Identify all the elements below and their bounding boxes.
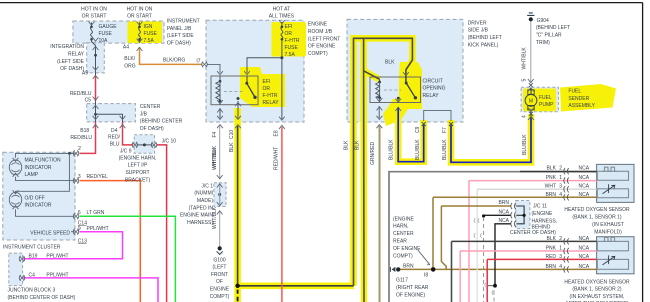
svg-text:COMPT): COMPT) — [393, 253, 413, 259]
svg-text:BLK: BLK — [547, 166, 557, 172]
svg-text:JUNCTION BLOCK 3: JUNCTION BLOCK 3 — [8, 288, 56, 294]
wire BLU/BLK from C.O.R. to C9 — [397, 100, 399, 103]
svg-text:3: 3 — [78, 174, 81, 180]
svg-text:A9: A9 — [82, 71, 88, 77]
pin sensor2 BLK — [564, 238, 569, 244]
J/C 9 box — [134, 135, 154, 154]
svg-text:D4: D4 — [111, 128, 118, 134]
svg-text:C10: C10 — [229, 130, 235, 139]
svg-text:OF DASH): OF DASH) — [167, 41, 191, 47]
pin J/C11 BRN — [511, 203, 516, 209]
svg-text:CIRCUIT: CIRCUIT — [423, 78, 443, 84]
wire RED/BLU B18 to cluster pin 2 — [80, 122, 96, 153]
svg-text:OF ENGINE: OF ENGINE — [308, 44, 336, 50]
svg-text:O/D OFF: O/D OFF — [25, 195, 45, 201]
svg-text:(ENGINE: (ENGINE — [393, 216, 415, 222]
svg-text:RELAY: RELAY — [263, 100, 280, 106]
svg-text:WHT/BLK: WHT/BLK — [212, 147, 218, 170]
svg-text:BLK: BLK — [354, 140, 360, 150]
svg-text:BLU/BLK: BLU/BLK — [389, 139, 395, 160]
pin E8 — [279, 117, 285, 129]
pin F7 — [449, 122, 453, 126]
svg-text:(BANK 1, SENSOR 1): (BANK 1, SENSOR 1) — [572, 215, 622, 221]
EFI relay coil — [219, 76, 221, 81]
svg-text:BLU: BLU — [110, 141, 120, 147]
svg-text:BLU/BLK: BLU/BLK — [522, 134, 528, 155]
svg-text:G100: G100 — [213, 257, 225, 263]
svg-text:C9: C9 — [415, 126, 421, 133]
svg-text:B18: B18 — [80, 128, 89, 134]
svg-text:CENTER OF DASH): CENTER OF DASH) — [510, 230, 556, 236]
wire center J/B internal — [95, 101, 97, 122]
svg-text:I7: I7 — [196, 58, 200, 64]
C.O.R. dashed link — [384, 89, 401, 91]
wire IGN fuse feed — [139, 23, 141, 27]
sensor2 row PNK 1 — [460, 250, 596, 252]
node BLK junction — [235, 284, 239, 288]
svg-text:ENGINE: ENGINE — [308, 22, 328, 28]
svg-text:4: 4 — [559, 192, 562, 198]
svg-text:GRN/RED: GRN/RED — [370, 142, 376, 165]
svg-text:NCA: NCA — [498, 210, 509, 216]
pin fuel pump 4 — [528, 108, 534, 120]
engine harness gray box — [389, 172, 597, 302]
svg-text:ASSEMBLY: ASSEMBLY — [568, 103, 595, 109]
svg-text:G904: G904 — [537, 18, 549, 24]
pin sensor2 RED — [564, 256, 569, 262]
svg-text:HARNESS): HARNESS) — [187, 220, 213, 226]
svg-text:VEHICLE SPEED: VEHICLE SPEED — [30, 231, 70, 237]
wire PPL/WHT pin 9 to B19 — [23, 232, 122, 259]
pin J/C 9 right — [151, 142, 157, 148]
O/D OFF indicator bulb — [9, 192, 21, 207]
svg-text:INDICATOR: INDICATOR — [25, 165, 52, 171]
pin J/C 9 left — [132, 142, 138, 148]
wire RED/YEL pin 3 down — [80, 181, 141, 302]
pin B19 — [19, 256, 25, 262]
wire BLK C10 down to junction — [238, 126, 354, 286]
svg-text:BRN: BRN — [545, 192, 556, 198]
wire RED/BLU A9 to C5 — [95, 76, 97, 101]
svg-text:NCA: NCA — [579, 192, 590, 198]
svg-text:F-HTR: F-HTR — [285, 38, 300, 44]
svg-text:GAUGE: GAUGE — [99, 24, 118, 30]
wire driver J/B internal jumper C9-F7 — [424, 110, 451, 121]
malfunction indicator lamp bulb — [9, 160, 21, 175]
svg-text:EFI: EFI — [263, 79, 271, 85]
svg-text:OR START: OR START — [127, 13, 152, 19]
pin integration relay top — [93, 38, 99, 50]
svg-text:E8: E8 — [273, 130, 279, 136]
svg-text:4: 4 — [559, 264, 562, 270]
svg-text:FUEL: FUEL — [568, 88, 581, 94]
node integration relay internal — [94, 54, 97, 57]
pin EFI relay switch bottom — [235, 103, 241, 107]
wire LT GRN pin 6 down — [80, 216, 176, 302]
svg-text:J/C 1: J/C 1 — [201, 183, 213, 189]
pin cluster 2 — [73, 150, 79, 156]
J/C 11 box — [516, 201, 530, 229]
svg-text:BLU/BLK: BLU/BLK — [415, 139, 421, 160]
frame top border — [0, 2, 643, 4]
svg-text:BLK: BLK — [343, 140, 349, 150]
svg-text:NCA: NCA — [579, 175, 590, 181]
wire BLK 2 branch to coil and down — [363, 38, 365, 302]
heated oxygen sensor 2 box — [597, 237, 634, 274]
svg-text:ENGINE: ENGINE — [210, 287, 230, 293]
wire BLK C10 from EFI relay — [237, 101, 239, 118]
wire RED/BLU D4 to J/C 9 — [123, 122, 134, 145]
svg-text:J/C 10: J/C 10 — [162, 138, 177, 144]
svg-text:WHT/BLK: WHT/BLK — [212, 206, 218, 229]
svg-text:NCA: NCA — [579, 184, 590, 190]
wire BLU/BLK F7 to fuel pump — [451, 117, 531, 163]
svg-text:RELAY: RELAY — [68, 52, 85, 58]
svg-text:10A: 10A — [99, 38, 109, 44]
sensor2 row BLK 2 — [452, 240, 597, 242]
wire PPL/WHT C4 down — [23, 278, 158, 302]
svg-text:(BANK 1, SENSOR 2): (BANK 1, SENSOR 2) — [572, 287, 622, 293]
wire vehicle speed stub to pin 9 — [71, 231, 75, 233]
wire MIL bulb to pin 3 — [16, 177, 75, 181]
svg-text:BRN: BRN — [403, 263, 414, 269]
wire J/C 9 internal — [137, 144, 153, 146]
yellow highlight band BLK wire 1 (driver J/B loop) — [354, 38, 413, 285]
wire BLK 1 loop in driver J/B — [354, 38, 413, 285]
svg-text:HEATED OXYGEN SENSOR: HEATED OXYGEN SENSOR — [564, 207, 630, 213]
svg-text:BRN: BRN — [498, 200, 509, 206]
IGN fuse 7.5A — [139, 27, 141, 40]
wire BLK/ORG A4 to I7 — [140, 47, 202, 64]
svg-text:1: 1 — [559, 246, 562, 252]
svg-text:(BEHIND LEFT: (BEHIND LEFT — [536, 25, 570, 31]
wire O/D bulb to pin 6 — [16, 209, 75, 216]
svg-text:OPENING: OPENING — [423, 86, 446, 92]
sensor1 row BRN 4 — [433, 196, 597, 198]
svg-text:INSTRUMENT: INSTRUMENT — [167, 19, 200, 25]
svg-text:(LEFT SIDE: (LEFT SIDE — [167, 33, 195, 39]
sensor2 row RED 3 — [487, 258, 596, 260]
svg-text:HARN,: HARN, — [393, 224, 409, 230]
yellow highlight band BLK wire 2 (to C.O.R. coil) — [360, 40, 367, 302]
svg-text:FRONT: FRONT — [211, 272, 228, 278]
svg-text:PNK: PNK — [546, 246, 557, 252]
svg-text:OR START: OR START — [82, 13, 107, 19]
wire PNK sensor1 down — [468, 181, 470, 302]
svg-text:COMPT): COMPT) — [308, 51, 328, 57]
svg-text:2: 2 — [559, 236, 562, 242]
J/C 11 row NCA 1 — [484, 214, 511, 216]
wire EFI relay coil output F4 — [219, 101, 221, 118]
instrument panel J/B box — [73, 21, 164, 43]
svg-text:HARNESS,: HARNESS, — [532, 219, 558, 225]
svg-text:ROOM J/B: ROOM J/B — [308, 29, 333, 35]
svg-text:ORG: ORG — [124, 63, 136, 69]
node BRN junction I8 — [431, 267, 436, 272]
pin IGN fuse top — [137, 22, 143, 26]
frame right border — [642, 3, 644, 302]
svg-text:7.5A: 7.5A — [285, 52, 296, 58]
driver side J/B box — [347, 19, 463, 122]
pin sensor1 PNK — [564, 178, 569, 184]
svg-text:BLK/: BLK/ — [124, 56, 135, 62]
svg-text:PPL/WHT: PPL/WHT — [46, 273, 68, 279]
yellow highlight circuit opening relay switch — [383, 62, 422, 126]
wire EFI fuse feed from fuse junction — [247, 58, 282, 73]
svg-text:BRN: BRN — [545, 264, 556, 270]
pin sensor1 BLK — [564, 168, 569, 174]
svg-text:(BEHIND CENTER: (BEHIND CENTER — [140, 119, 183, 125]
svg-text:(BEHIND CENTER OF DASH): (BEHIND CENTER OF DASH) — [8, 295, 76, 301]
svg-text:2: 2 — [78, 146, 81, 152]
svg-text:7.5A: 7.5A — [144, 38, 155, 44]
C.O.R. coil — [379, 79, 381, 82]
svg-text:MADE): MADE) — [197, 198, 213, 204]
svg-text:NCA: NCA — [579, 236, 590, 242]
svg-text:OR: OR — [285, 31, 293, 37]
svg-text:COMPT): COMPT) — [210, 294, 230, 300]
svg-text:PUMP: PUMP — [539, 102, 554, 108]
wire EFI fuse to E8 — [281, 39, 283, 119]
svg-text:A4: A4 — [123, 44, 129, 50]
svg-text:RED/BLU: RED/BLU — [70, 135, 92, 141]
yellow highlight fuel pump — [523, 89, 556, 112]
svg-text:SENDER: SENDER — [568, 96, 589, 102]
svg-text:4: 4 — [522, 115, 528, 118]
wire WHT sensor1 down — [476, 189, 478, 302]
circuit opening relay rect — [370, 77, 421, 103]
leader line to junction — [418, 250, 430, 265]
yellow highlight band BLK wire from EFI relay C10 — [238, 108, 354, 286]
pin cluster 9 — [73, 229, 79, 235]
yellow highlight band BLU/BLK F7-to-pump — [451, 114, 531, 162]
heated oxygen sensor 1 box — [597, 164, 634, 202]
svg-text:J/B: J/B — [140, 111, 148, 117]
connector marks WHT line — [474, 218, 479, 222]
svg-text:B19: B19 — [29, 254, 38, 260]
pin J/C 1 top — [217, 175, 223, 187]
svg-text:RED: RED — [545, 254, 556, 260]
J/C 11 internal — [517, 206, 525, 224]
svg-text:TRIM): TRIM) — [536, 40, 550, 46]
svg-text:HOT AT: HOT AT — [273, 7, 291, 13]
pin cluster 6 — [73, 213, 79, 219]
svg-text:(IN EXHAUST SYSTEM,: (IN EXHAUST SYSTEM, — [570, 294, 625, 300]
svg-text:(LEFT SIDE: (LEFT SIDE — [57, 59, 85, 65]
pin sensor2 BRN — [564, 266, 569, 272]
pin sensor2 PNK — [564, 248, 569, 254]
svg-text:KICK PANEL): KICK PANEL) — [468, 43, 499, 49]
svg-text:HEATED OXYGEN SENSOR: HEATED OXYGEN SENSOR — [564, 279, 630, 285]
svg-text:J/C 9: J/C 9 — [120, 148, 132, 154]
svg-text:SUPPORT: SUPPORT — [125, 170, 149, 176]
svg-text:PANEL J/B: PANEL J/B — [167, 26, 192, 32]
svg-text:OF: OF — [216, 279, 223, 285]
pin C.O.R. switch output — [395, 99, 401, 111]
svg-text:ALL TIMES: ALL TIMES — [269, 14, 295, 20]
svg-text:OF ENGINE: OF ENGINE — [393, 246, 421, 252]
svg-text:CENTER: CENTER — [393, 231, 414, 237]
EFI relay switch — [246, 76, 248, 83]
pin F4 — [217, 116, 223, 128]
wire PNK sensor2 down — [459, 251, 461, 302]
svg-text:LT GRN: LT GRN — [87, 210, 105, 216]
svg-text:C4: C4 — [29, 273, 36, 279]
svg-text:(NUMMI: (NUMMI — [194, 191, 213, 197]
J/C 11 row BRN — [441, 205, 511, 207]
pin A9 — [93, 67, 99, 79]
svg-text:ENGINE MAIN: ENGINE MAIN — [180, 213, 213, 219]
sensor1 row WHT 3 — [477, 188, 596, 190]
cluster internal node wire pin2 — [16, 153, 75, 157]
pin C9 — [422, 122, 426, 126]
svg-text:3: 3 — [559, 184, 562, 190]
svg-text:DRIVER: DRIVER — [468, 20, 487, 26]
pin sensor1 BRN — [564, 194, 569, 200]
yellow highlight IGN fuse — [128, 22, 163, 44]
sensor2 internal sensing element — [597, 259, 628, 269]
pin EFI relay coil top — [217, 71, 223, 75]
svg-text:9: 9 — [78, 226, 81, 232]
ground G100 — [218, 246, 222, 250]
EFI relay dashed link — [224, 91, 243, 93]
svg-text:(BEHIND LEFT: (BEHIND LEFT — [468, 35, 502, 41]
EFI relay rect — [211, 76, 258, 105]
svg-text:J/C 11: J/C 11 — [533, 204, 547, 210]
svg-text:OF DASH): OF DASH) — [60, 66, 84, 72]
wire BLK dashed continuation — [237, 290, 239, 302]
svg-text:NCA: NCA — [579, 264, 590, 270]
sensor1 row BLK 2 — [520, 171, 597, 173]
pin C.O.R. switch feed — [403, 72, 409, 76]
svg-text:RED/: RED/ — [108, 135, 121, 141]
pin fuel pump 5 — [528, 79, 534, 91]
yellow highlight EFI relay switch and label — [240, 67, 285, 107]
ground G904 — [529, 17, 533, 21]
yellow highlight band BLK dashed continuation — [234, 289, 241, 302]
sensor1 row PNK 1 — [469, 180, 597, 182]
svg-text:NCA: NCA — [579, 166, 590, 172]
wire BRN sensor1 row4 branch — [432, 197, 434, 267]
sensor1 internal sensing element — [597, 189, 628, 198]
pin C5 — [93, 97, 99, 109]
svg-text:BRACKET): BRACKET) — [125, 177, 151, 183]
svg-text:REAR: REAR — [393, 239, 407, 245]
svg-text:"C" PILLAR: "C" PILLAR — [536, 33, 562, 39]
svg-text:NCA: NCA — [498, 218, 509, 224]
svg-text:OF ENGINE): OF ENGINE) — [396, 292, 426, 298]
yellow highlight band BLU/BLK relay-to-C9 — [398, 104, 424, 162]
svg-text:BLK: BLK — [385, 59, 395, 65]
svg-text:(RIGHT REAR: (RIGHT REAR — [396, 285, 429, 291]
svg-text:3: 3 — [559, 254, 562, 260]
svg-text:WHT: WHT — [545, 184, 556, 190]
svg-text:RED/WHT: RED/WHT — [273, 147, 279, 170]
wire GRN/RED from C.O.R. coil down — [378, 98, 380, 118]
pin I7 — [202, 61, 208, 67]
yellow highlight fuel sender assembly label — [560, 84, 616, 112]
pin B18 — [93, 116, 99, 128]
instrument cluster box — [3, 152, 75, 240]
svg-text:CENTER: CENTER — [140, 104, 161, 110]
pin D4 — [120, 116, 126, 128]
svg-text:(ENGINE HARN,: (ENGINE HARN, — [119, 155, 157, 161]
pin J/C 1 bottom — [217, 202, 223, 214]
wire gauge fuse feed — [91, 23, 93, 27]
wire EFI fuse column — [281, 22, 283, 27]
pin GRN/RED J/B exit — [377, 116, 383, 128]
svg-text:PNK: PNK — [546, 175, 557, 181]
svg-text:G117: G117 — [396, 278, 408, 284]
svg-text:MANIFOLD): MANIFOLD) — [594, 229, 622, 235]
wire RED sensor2 down — [486, 259, 488, 302]
svg-text:HOT IN ON: HOT IN ON — [127, 6, 153, 12]
svg-text:MALFUNCTION: MALFUNCTION — [25, 158, 62, 164]
gauge fuse GAUGE 10A — [91, 27, 93, 40]
svg-text:NCA: NCA — [579, 254, 590, 260]
wire I7 to EFI relay coil — [208, 64, 221, 73]
pin EFI relay switch top — [244, 71, 250, 75]
svg-text:C5: C5 — [85, 97, 92, 103]
svg-text:EFI: EFI — [285, 24, 293, 30]
svg-text:FUSE: FUSE — [285, 45, 299, 51]
wire NCA1 dashed down — [483, 217, 485, 302]
svg-text:6: 6 — [78, 210, 81, 216]
wire WHT/BLK F4 to J/C 1 to G100 — [219, 126, 221, 246]
svg-text:BLU/BLK: BLU/BLK — [442, 139, 448, 160]
svg-text:FUEL: FUEL — [539, 95, 552, 101]
pin C4 — [19, 275, 25, 281]
J/C 11 row NCA 2 — [495, 224, 511, 286]
pin gauge fuse top — [89, 22, 95, 26]
svg-text:2: 2 — [559, 166, 562, 172]
svg-text:INDICATOR: INDICATOR — [25, 203, 52, 209]
svg-text:(LEFT: (LEFT — [213, 265, 227, 271]
wire BRN ground bus G117 — [400, 268, 597, 270]
svg-text:NCA: NCA — [579, 246, 590, 252]
svg-text:(LEFT FRONT: (LEFT FRONT — [308, 36, 340, 42]
svg-text:IGN: IGN — [144, 24, 153, 30]
wire BLK sensor2 down — [451, 241, 453, 302]
pin J/C11 NCA1 — [511, 212, 516, 218]
svg-text:INTEGRATION: INTEGRATION — [50, 44, 84, 50]
svg-text:LAMP: LAMP — [25, 172, 39, 178]
svg-text:OR: OR — [263, 86, 271, 92]
center J/B box — [87, 104, 136, 122]
J/C 1 box — [214, 183, 226, 207]
svg-text:1: 1 — [559, 175, 562, 181]
pin EFI relay coil bottom — [217, 100, 223, 112]
svg-text:PPL/WHT: PPL/WHT — [46, 254, 68, 260]
wire RED/WHT E8 down — [281, 127, 283, 302]
svg-text:SIDE J/B: SIDE J/B — [468, 28, 489, 34]
svg-text:FUSE: FUSE — [99, 31, 113, 37]
svg-text:5: 5 — [522, 79, 528, 82]
C.O.R. switch — [405, 82, 408, 85]
engine room J/B box — [206, 20, 304, 122]
junction block 3 box — [9, 253, 23, 286]
svg-text:(TAPED IN: (TAPED IN — [189, 205, 214, 211]
pin C.O.R. coil bottom — [377, 98, 383, 110]
wire BRN J/C11 branch — [441, 206, 446, 269]
EFI fuse 7.5A — [281, 27, 283, 40]
wire RED J/C 9 to J/C 10 down — [157, 145, 167, 302]
svg-text:BLK/ORG: BLK/ORG — [163, 58, 185, 64]
pin C10 — [235, 116, 241, 128]
svg-text:RED/YEL: RED/YEL — [87, 174, 109, 180]
svg-text:BLK: BLK — [229, 142, 235, 152]
yellow highlight EFI fuse label — [273, 22, 306, 57]
